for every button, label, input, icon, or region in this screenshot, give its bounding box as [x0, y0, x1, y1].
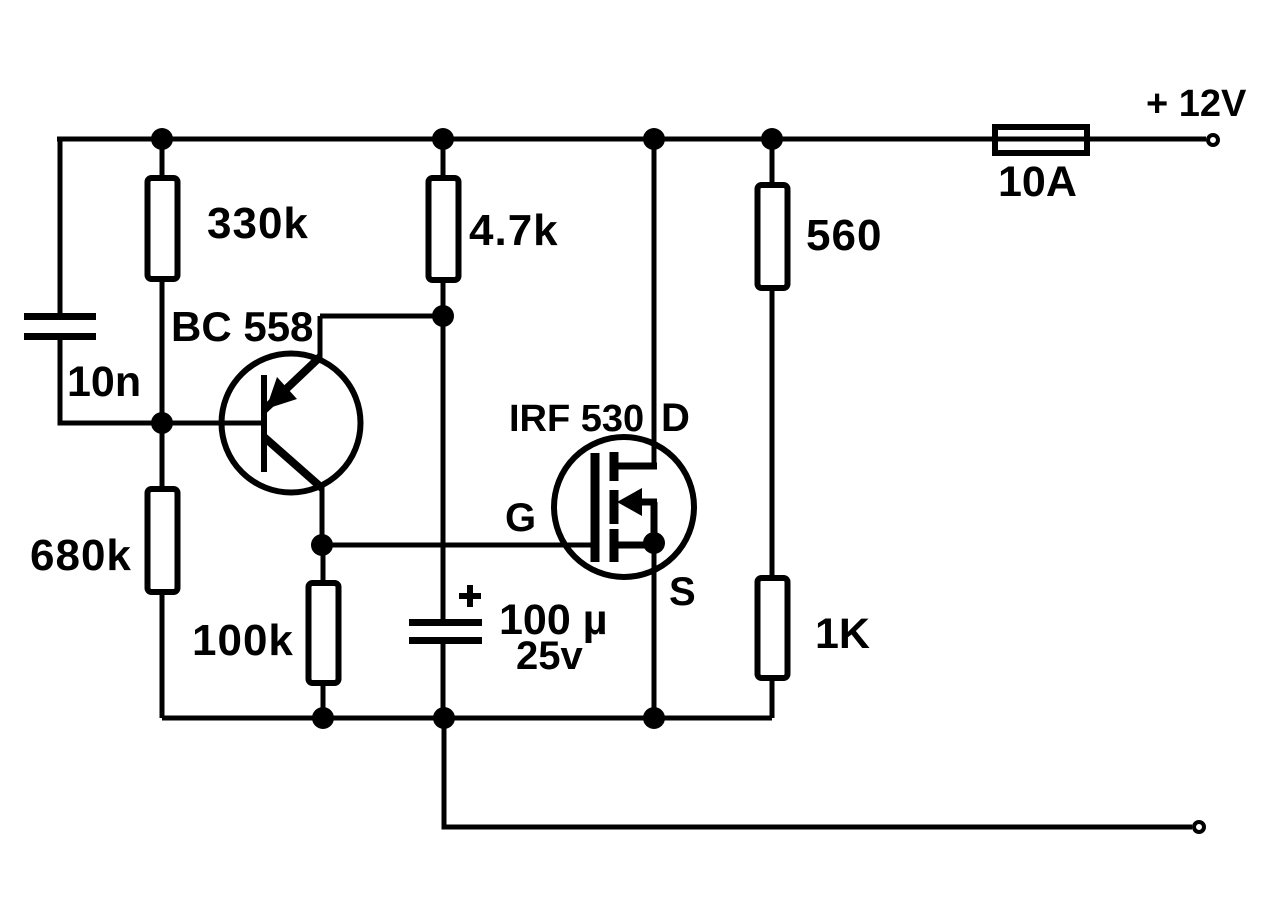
node top rail / 4.7k: [432, 128, 454, 150]
node top rail / 560: [761, 128, 783, 150]
node source / rail: [643, 707, 665, 729]
node collector / gate / 100k: [311, 534, 333, 556]
wire emitter node horizontal: [320, 314, 443, 319]
svg-text:4.7k: 4.7k: [469, 206, 559, 255]
MOSFET channel segment bottom: [610, 529, 619, 562]
MOSFET body horizontal with arrow: [640, 499, 657, 506]
wire top rail +12V: [57, 137, 1206, 142]
transistor Q1 base bar: [261, 375, 267, 472]
svg-text:100k: 100k: [192, 616, 294, 665]
MOSFET body arrow: [617, 488, 642, 516]
MOSFET source horizontal: [614, 542, 657, 549]
MOSFET body vertical: [651, 502, 658, 545]
svg-text:S: S: [669, 570, 696, 614]
wire C2 bottom lead: [441, 644, 446, 718]
MOSFET channel segment middle: [610, 490, 619, 524]
wire left vertical lower (C1 bottom plate to base node): [60, 340, 162, 423]
svg-text:D: D: [661, 396, 690, 440]
node base / C1 / 680k: [151, 412, 173, 434]
wire 330k bottom lead to base node: [160, 282, 165, 423]
node C2 bottom / rail / output: [433, 707, 455, 729]
svg-text:680k: 680k: [30, 531, 132, 580]
terminal +12V output: [1208, 135, 1218, 145]
svg-text:1K: 1K: [815, 610, 870, 658]
svg-text:10A: 10A: [998, 158, 1077, 206]
svg-text:BC 558: BC 558: [171, 303, 313, 350]
MOSFET channel segment top: [610, 452, 619, 481]
wire collector vertical: [320, 487, 325, 545]
svg-text:560: 560: [806, 211, 882, 260]
wire 1K bottom lead: [770, 681, 775, 718]
wire 330k top lead: [160, 139, 165, 178]
wire 100k bottom lead: [321, 686, 326, 718]
transistor Q1 emitter diagonal: [264, 356, 321, 410]
wire 680k bottom lead to bottom rail: [160, 593, 165, 718]
capacitor C2 100u top plate: [409, 619, 482, 626]
wire emitter vertical: [318, 316, 323, 360]
wire left vertical upper (rail to C1 top plate): [58, 139, 63, 313]
capacitor C2 100u bottom plate: [409, 637, 482, 644]
terminal output lower: [1194, 822, 1204, 832]
fuse F1 10A body: [995, 127, 1087, 153]
MOSFET source junction dot: [643, 532, 665, 554]
wire base lead: [162, 421, 261, 426]
svg-text:G: G: [505, 496, 536, 540]
transistor Q1 emitter arrow: [266, 377, 297, 409]
wire 560 bottom to 1K top: [770, 290, 775, 578]
node 4.7k bottom / emitter: [432, 305, 454, 327]
transistor Q1 collector diagonal: [264, 437, 323, 489]
svg-text:IRF 530: IRF 530: [509, 398, 644, 440]
svg-text:10n: 10n: [67, 358, 141, 406]
MOSFET drain horizontal: [614, 463, 657, 470]
wire 4.7k top lead: [441, 139, 446, 178]
resistor R4 100k: [309, 583, 339, 683]
capacitor C1 10n top plate: [24, 313, 96, 320]
MOSFET U1 IRF530 circle: [554, 437, 694, 577]
capacitor C1 10n bottom plate: [24, 333, 96, 340]
wire gate line: [322, 543, 596, 548]
wire 680k top lead from base node: [160, 423, 165, 489]
MOSFET gate bar: [591, 453, 600, 562]
resistor R2 680k: [148, 489, 178, 592]
plus sign of C2: [459, 593, 481, 599]
wire bottom rail: [162, 716, 772, 721]
resistor R5 560: [758, 185, 788, 288]
wire 560 top lead: [770, 139, 775, 185]
wire MOSFET source vertical: [652, 545, 657, 718]
wire MOSFET drain vertical: [652, 139, 657, 469]
resistor R6 1K: [758, 578, 788, 678]
resistor R1 330k: [148, 178, 178, 279]
svg-text:+ 12V: + 12V: [1146, 83, 1247, 125]
node 100k bottom / rail: [312, 707, 334, 729]
wire output lower: [444, 718, 1192, 827]
transistor Q1 BC558 circle: [222, 354, 361, 493]
wire 100k top lead: [321, 545, 326, 583]
svg-text:330k: 330k: [207, 199, 309, 248]
wire 4.7k bottom lead down to C2: [441, 283, 446, 622]
svg-text:25v: 25v: [516, 634, 583, 678]
node top rail / 330k: [151, 128, 173, 150]
resistor R3 4.7k: [429, 178, 459, 280]
node top rail / drain: [643, 128, 665, 150]
